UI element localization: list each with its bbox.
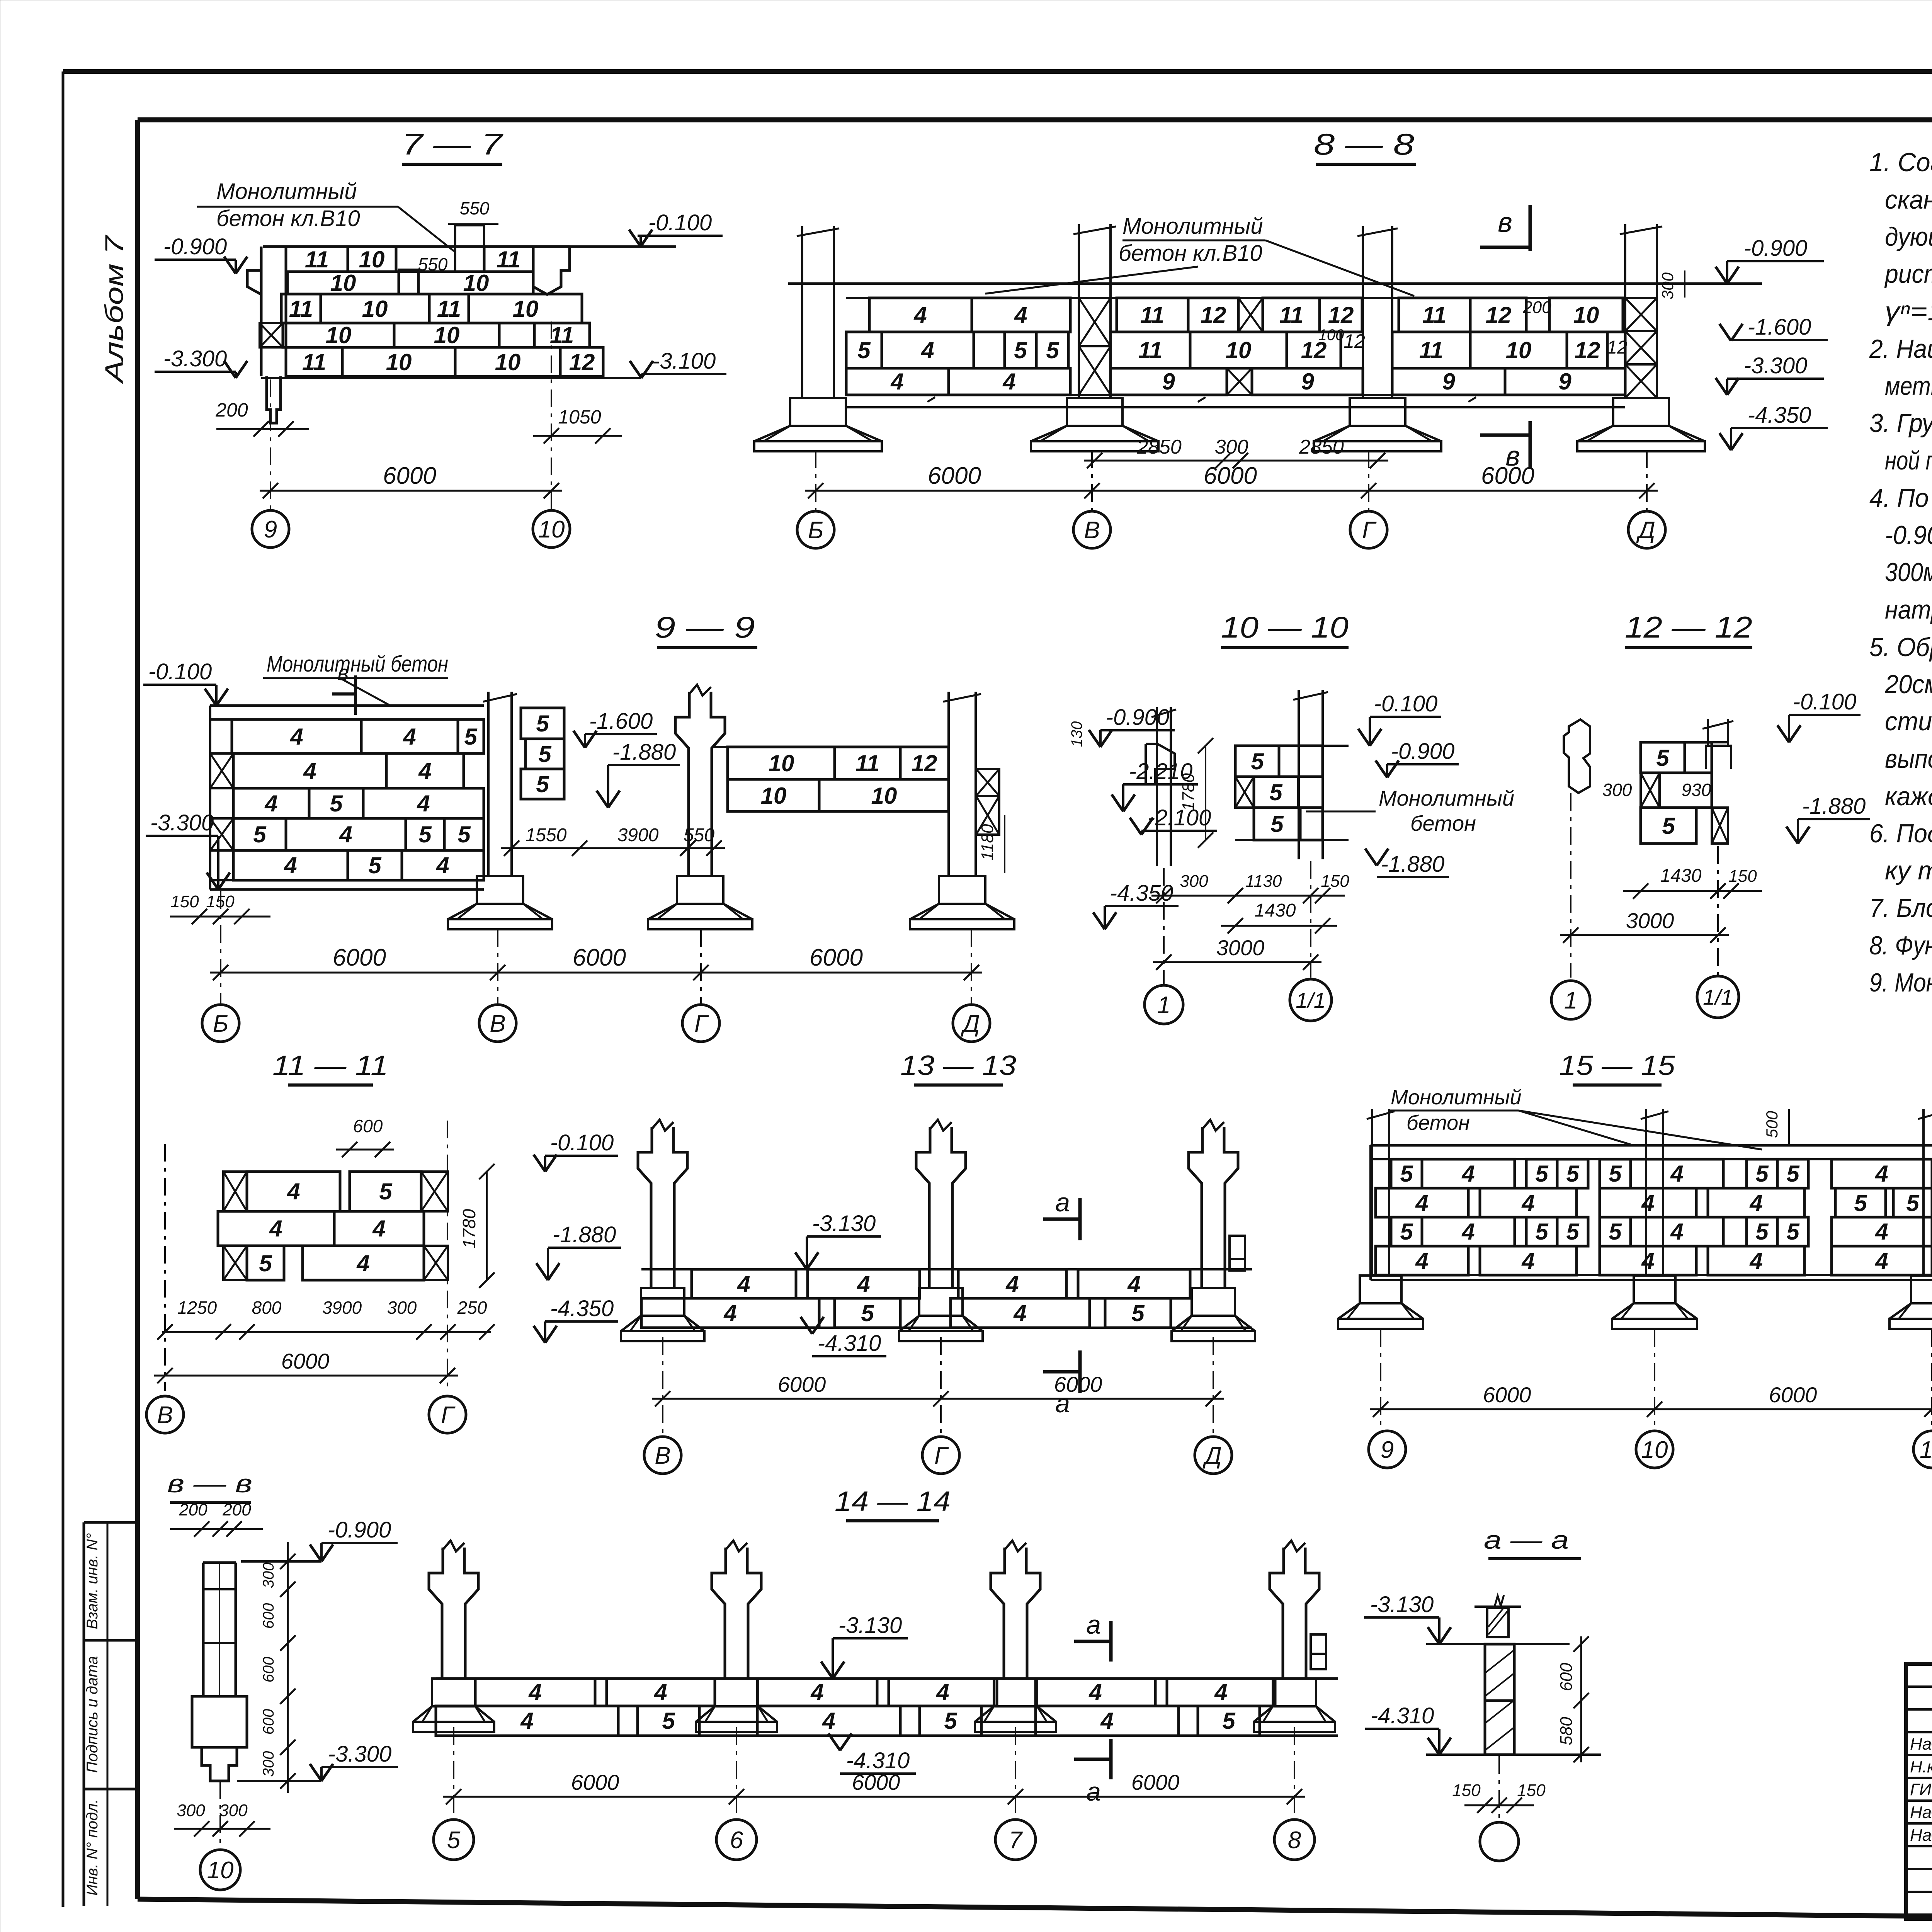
section 12-12 corbel shape [1564, 719, 1590, 793]
stamp signature names [1910, 1735, 1932, 1845]
svg-text:6: 6 [730, 1827, 743, 1854]
svg-text:6000: 6000 [1054, 1372, 1102, 1396]
section в-в axis line [219, 1781, 221, 1849]
section 10-10 axis lines [1164, 861, 1311, 985]
section 15-15 label Монолитный бетон [1389, 1086, 1762, 1150]
svg-text:10 — 10: 10 — 10 [1221, 610, 1349, 644]
svg-text:14 — 14: 14 — 14 [835, 1486, 951, 1517]
svg-text:4: 4 [1127, 1271, 1140, 1297]
svg-text:5: 5 [1270, 811, 1284, 837]
svg-text:а: а [1086, 1610, 1101, 1639]
svg-text:-3.130: -3.130 [1370, 1592, 1434, 1617]
section 11-11 blocks [218, 1172, 448, 1280]
svg-text:5: 5 [1014, 337, 1027, 363]
svg-text:-4.350: -4.350 [1748, 403, 1811, 428]
section 9-9 blocks 5 right of В [521, 708, 564, 799]
section а-а axis circle [1480, 1822, 1519, 1861]
section 9-9 label Монолитный бетон [263, 651, 448, 706]
svg-text:В: В [1084, 517, 1100, 544]
section 14-14 title [835, 1486, 951, 1521]
section 10-10 axis circle 1/1 [1290, 979, 1332, 1021]
svg-text:300: 300 [177, 1801, 205, 1820]
section 8-8 axis lines [816, 450, 1647, 510]
svg-text:7: 7 [1009, 1827, 1023, 1854]
svg-text:Б: Б [213, 1010, 228, 1037]
section 14-14 dim 6000 row [443, 1770, 1305, 1804]
section 9-9 column В [448, 692, 552, 929]
svg-text:2. Наивысший уровень грунто: 2. Наивысший уровень грунтовых вод долже… [1869, 334, 1932, 364]
section а-а dim 150 150 [1452, 1781, 1546, 1813]
section 11-11 axis circle В [146, 1396, 184, 1433]
section 13-13 axis lines [663, 1337, 1213, 1435]
svg-text:5: 5 [1755, 1219, 1769, 1245]
svg-text:4: 4 [822, 1708, 835, 1734]
section 7-7 dim 200 [215, 399, 309, 437]
svg-text:6000: 6000 [928, 463, 981, 489]
svg-text:6000: 6000 [573, 944, 626, 971]
svg-text:4: 4 [1415, 1190, 1428, 1216]
svg-text:9. Монолитные участки выпол: 9. Монолитные участки выполнять из бетон… [1869, 968, 1932, 997]
section 11-11 title [272, 1050, 388, 1085]
section 7-7 right cap [533, 247, 570, 294]
sidebar label Инв. № подл. [84, 1799, 101, 1896]
svg-text:ку толщиной 10см.: ку толщиной 10см. [1885, 856, 1932, 885]
svg-text:10: 10 [386, 349, 412, 375]
svg-text:-0.900: -0.900 [1744, 236, 1807, 261]
section 13-13 axis circle Г [922, 1437, 959, 1474]
svg-text:200: 200 [1522, 298, 1551, 317]
section 10-10 level -0.100 [1358, 691, 1441, 746]
svg-text:-0.900: -0.900 [1106, 705, 1169, 730]
svg-text:-3.130: -3.130 [838, 1613, 902, 1638]
svg-text:5: 5 [536, 711, 549, 736]
stamp main box outline [1906, 1664, 1932, 1932]
svg-text:-1.600: -1.600 [589, 709, 653, 734]
svg-text:300: 300 [260, 1751, 277, 1777]
section 9-9 level -1.880 [597, 740, 680, 808]
svg-text:11: 11 [289, 296, 313, 322]
section 9-9 dim 1550-3900-550 [501, 825, 725, 856]
section 15-15 axis circle 10 [1636, 1431, 1673, 1468]
section 9-9 axis circle Д [953, 1005, 990, 1042]
svg-text:Монолитный: Монолитный [1391, 1086, 1522, 1109]
svg-text:6. Под подошвой фундамент: 6. Под подошвой фундаментов выполнить пе… [1869, 819, 1932, 848]
svg-text:-0.900: -0.900 [1391, 739, 1454, 764]
svg-text:5: 5 [1566, 1219, 1580, 1245]
svg-text:5: 5 [1662, 813, 1675, 839]
svg-text:10: 10 [1226, 337, 1252, 363]
section 12-12 level -0.100 [1777, 689, 1861, 742]
section 13-13 column Д [1172, 1120, 1255, 1341]
svg-text:15 — 15: 15 — 15 [1559, 1050, 1675, 1081]
section в-в level -0.900 [241, 1517, 398, 1561]
svg-text:4: 4 [284, 852, 297, 878]
svg-text:-3.300: -3.300 [1744, 353, 1807, 378]
section 14-14 axis circle 5 [434, 1820, 474, 1860]
svg-text:6000: 6000 [281, 1349, 330, 1373]
section 11-11 axis lines [165, 1121, 447, 1391]
svg-text:-1.880: -1.880 [553, 1222, 616, 1247]
section 9-9 section mark в [332, 660, 355, 715]
svg-text:9: 9 [1558, 369, 1571, 395]
svg-text:300: 300 [1602, 780, 1632, 800]
svg-text:4: 4 [1875, 1248, 1888, 1274]
svg-text:150: 150 [1728, 867, 1757, 886]
svg-text:натрия, битумные мастики).: натрия, битумные мастики). [1885, 595, 1932, 624]
section 9-9 left wall [210, 706, 484, 889]
section 12-12 axis lines [1571, 793, 1718, 978]
svg-text:5: 5 [1656, 745, 1670, 771]
svg-text:4: 4 [921, 337, 934, 363]
section 8-8 level -0.900 [1716, 236, 1824, 284]
svg-text:бетон: бетон [1410, 811, 1476, 835]
svg-text:метки планировки земли.: метки планировки земли. [1885, 371, 1932, 401]
svg-text:Монолитный: Монолитный [1379, 786, 1514, 810]
svg-text:10: 10 [359, 247, 385, 272]
section 8-8 column В hatched [1031, 224, 1158, 451]
svg-text:1550: 1550 [526, 825, 567, 845]
svg-text:6000: 6000 [1483, 1383, 1531, 1407]
svg-text:12: 12 [912, 750, 937, 776]
svg-text:11: 11 [437, 296, 461, 322]
svg-text:5: 5 [368, 852, 382, 878]
svg-text:4: 4 [1875, 1219, 1888, 1245]
svg-text:550: 550 [460, 198, 490, 218]
svg-text:4: 4 [528, 1679, 541, 1705]
svg-text:бетон кл.В10: бетон кл.В10 [1119, 241, 1262, 266]
svg-text:-1.600: -1.600 [1748, 315, 1811, 340]
section 9-9 axis circle Б [202, 1005, 239, 1042]
section 8-8 axis circle В [1073, 511, 1111, 548]
section а-а level -3.130 [1364, 1592, 1451, 1644]
svg-text:1/1: 1/1 [1296, 988, 1326, 1012]
svg-text:4: 4 [372, 1216, 385, 1242]
svg-text:10: 10 [538, 516, 565, 543]
svg-text:-1.880: -1.880 [612, 740, 676, 765]
svg-text:-3.100: -3.100 [652, 349, 716, 374]
section 9-9 level -3.300 [146, 810, 230, 889]
section 7-7 title [402, 127, 503, 164]
svg-text:1. Согласно технического от: 1. Согласно технического отчета по инжен… [1869, 148, 1932, 177]
svg-text:4: 4 [1013, 1300, 1026, 1326]
notes text block [1869, 148, 1932, 997]
section 7-7 x-block [260, 323, 283, 347]
svg-text:Монолитный: Монолитный [216, 179, 357, 204]
svg-text:1430: 1430 [1255, 900, 1296, 921]
section а-а datum top line [1426, 1643, 1570, 1645]
svg-text:11: 11 [1920, 1437, 1932, 1463]
svg-text:5: 5 [538, 741, 552, 767]
section 13-13 section mark a bottom [1043, 1350, 1080, 1418]
section 10-10 title [1221, 610, 1349, 648]
svg-text:4: 4 [418, 758, 431, 784]
svg-text:580: 580 [1557, 1717, 1576, 1745]
svg-text:4: 4 [287, 1179, 300, 1204]
section а-а datum bottom line [1426, 1753, 1601, 1756]
section 10-10 level -1.880 [1365, 849, 1449, 877]
section 14-14 level -3.130 [821, 1613, 908, 1679]
section 11-11 dims row [157, 1298, 495, 1340]
section 8-8 dim 2850-300-2850 [1084, 436, 1388, 468]
section 7-7 level -3.100 [603, 349, 726, 378]
svg-text:5: 5 [1786, 1219, 1800, 1245]
section 8-8 level -4.350 [1719, 403, 1828, 450]
svg-text:5: 5 [662, 1708, 675, 1734]
sidebar label Подпись и дата [84, 1656, 101, 1773]
svg-text:4: 4 [1461, 1161, 1475, 1187]
svg-text:5: 5 [1400, 1161, 1413, 1187]
section 12-12 axis circle 1 [1551, 981, 1590, 1019]
section в-в dim 300 300 [174, 1801, 270, 1837]
svg-text:5: 5 [1046, 337, 1060, 363]
svg-text:11: 11 [1419, 337, 1443, 363]
svg-text:2850: 2850 [1299, 436, 1344, 458]
section 11-11 dim 6000 [154, 1349, 458, 1383]
section 15-15 axis circle 11 [1913, 1431, 1932, 1468]
svg-text:Подпись и дата: Подпись и дата [84, 1656, 101, 1773]
section 8-8 foundation beam strip [846, 395, 1625, 407]
section 8-8 wall span В-Г [1111, 298, 1365, 395]
svg-text:4: 4 [1670, 1161, 1683, 1187]
svg-text:Монолитный: Монолитный [1122, 214, 1263, 239]
svg-text:300: 300 [387, 1298, 417, 1318]
section 13-13 column В [621, 1120, 704, 1341]
svg-text:1430: 1430 [1660, 866, 1702, 886]
svg-text:-1.880: -1.880 [1381, 852, 1444, 877]
svg-text:600: 600 [260, 1709, 277, 1735]
section 8-8 top slab [788, 284, 1762, 298]
svg-text:в: в [337, 660, 349, 685]
svg-text:Г: Г [441, 1402, 456, 1429]
svg-text:-3.300: -3.300 [150, 810, 214, 835]
svg-text:1: 1 [1564, 987, 1577, 1014]
svg-text:Альбом 7: Альбом 7 [100, 235, 128, 384]
section 8-8 wall span Б-В [846, 298, 1070, 395]
section а-а level -4.310 [1365, 1703, 1451, 1755]
svg-text:11: 11 [305, 247, 329, 272]
section 13-13 axis circle Д [1195, 1437, 1232, 1474]
svg-text:250: 250 [457, 1298, 487, 1318]
svg-text:10: 10 [1573, 302, 1599, 328]
svg-text:6000: 6000 [383, 463, 436, 489]
section 14-14 column 6 [696, 1541, 777, 1732]
svg-text:8: 8 [1288, 1827, 1301, 1854]
section 10-10 dim 3000 [1153, 935, 1321, 970]
section 13-13 column Г [899, 1120, 983, 1341]
section 10-10 column axis 1/1 [1293, 690, 1328, 859]
svg-text:5: 5 [330, 791, 343, 816]
svg-text:200: 200 [179, 1500, 207, 1519]
section 8-8 wall span Г-Д [1392, 298, 1628, 395]
svg-text:γⁿ=1.8 т/м³.: γⁿ=1.8 т/м³. [1885, 297, 1932, 326]
section 14-14 level -4.310 [828, 1733, 916, 1774]
svg-text:3. Грунтовые воды не агрес: 3. Грунтовые воды не агрессивны по отнош… [1869, 408, 1932, 438]
section 9-9 axis circle В [479, 1005, 516, 1042]
section 9-9 level -4.350 [1093, 881, 1179, 929]
svg-text:4. По верху фундаментных: 4. По верху фундаментных балок и блоков … [1869, 483, 1932, 513]
section 8-8 axis circle Д [1628, 511, 1665, 548]
svg-text:11 — 11: 11 — 11 [272, 1050, 388, 1081]
svg-text:11: 11 [302, 349, 326, 375]
svg-text:5: 5 [536, 771, 549, 797]
svg-text:а: а [1055, 1188, 1070, 1217]
section в-в dim 200 200 [170, 1500, 263, 1537]
section 8-8 level -3.300 [1716, 353, 1824, 395]
section 9-9 level -0.900 right [1068, 705, 1175, 747]
svg-text:-3.130: -3.130 [812, 1211, 876, 1236]
section а-а title [1484, 1526, 1581, 1559]
svg-text:4: 4 [403, 724, 416, 750]
svg-text:1250: 1250 [177, 1298, 217, 1318]
svg-text:930: 930 [1682, 780, 1711, 800]
svg-text:сканиям основанием здания: сканиям основанием здания являются пески… [1885, 185, 1932, 214]
section 10-10 axis circle 1 [1145, 985, 1183, 1024]
svg-text:10: 10 [362, 296, 388, 322]
svg-text:130: 130 [1068, 721, 1085, 747]
svg-text:550: 550 [684, 825, 714, 845]
section 9-9 level -1.600 [573, 709, 657, 748]
svg-text:-0.900: -0.900 [163, 234, 227, 259]
section 7-7 left column [247, 247, 286, 423]
section 14-14 beam blocks [436, 1679, 1338, 1736]
section 7-7 axis lines [270, 321, 551, 510]
svg-text:4: 4 [913, 302, 927, 328]
section 10-10 label Монолитный бетон [1306, 786, 1514, 835]
svg-text:бетон: бетон [1406, 1111, 1470, 1134]
sheet outer border left [62, 71, 65, 1907]
svg-text:4: 4 [1749, 1190, 1762, 1216]
svg-text:500: 500 [1763, 1111, 1781, 1138]
svg-text:5: 5 [1400, 1219, 1413, 1245]
svg-text:-0.100: -0.100 [1374, 691, 1437, 716]
section 15-15 title [1559, 1050, 1675, 1085]
svg-text:200: 200 [215, 399, 248, 421]
section 9-9 axis lines [221, 891, 971, 1005]
svg-text:а: а [1086, 1777, 1101, 1806]
section 14-14 column 8 [1254, 1541, 1335, 1732]
svg-text:12 — 12: 12 — 12 [1625, 610, 1752, 644]
section 7-7 wall blocks [281, 247, 603, 376]
svg-text:-3.300: -3.300 [328, 1742, 391, 1767]
section 9-9 dim 150-150 [170, 892, 270, 924]
section 15-15 dim row [1370, 1383, 1932, 1417]
svg-text:6000: 6000 [571, 1770, 619, 1794]
svg-text:5: 5 [1854, 1190, 1867, 1216]
svg-text:ГИПстр.: ГИПстр. [1910, 1780, 1932, 1799]
svg-text:-4.350: -4.350 [550, 1296, 614, 1321]
svg-text:5: 5 [447, 1827, 461, 1854]
svg-text:10: 10 [513, 296, 539, 322]
section 8-8 dim 6000 row [805, 463, 1658, 498]
section 7-7 level -3.300 [155, 346, 247, 378]
section 10-10 dim 300-1130-150 [1151, 872, 1349, 903]
svg-text:3900: 3900 [322, 1298, 362, 1318]
svg-text:5: 5 [418, 821, 432, 847]
section 10-10 column axis 1 [1146, 707, 1176, 866]
svg-text:4: 4 [1214, 1679, 1227, 1705]
section в-в column stack [192, 1563, 247, 1781]
section в-в title [167, 1469, 252, 1502]
svg-text:5: 5 [253, 821, 267, 847]
svg-text:10: 10 [769, 750, 794, 776]
svg-text:3000: 3000 [1626, 908, 1674, 933]
section 8-8 dim 300 [1658, 270, 1685, 299]
svg-text:Нач.гр.: Нач.гр. [1910, 1803, 1932, 1822]
svg-text:4: 4 [356, 1250, 369, 1276]
svg-text:1050: 1050 [558, 406, 601, 428]
section а-а vertical dims [1557, 1636, 1589, 1762]
section в-в level -3.300 [237, 1742, 398, 1781]
section 8-8 level -1.600 [1719, 315, 1828, 341]
svg-text:Нач.гр.: Нач.гр. [1910, 1826, 1932, 1845]
svg-text:4: 4 [1461, 1219, 1475, 1245]
svg-text:5: 5 [1251, 748, 1264, 774]
svg-text:в — в: в — в [167, 1469, 252, 1498]
svg-text:4: 4 [1002, 369, 1015, 395]
svg-text:10: 10 [326, 322, 352, 348]
section 7-7 axis circle 9 [252, 510, 289, 548]
svg-text:300: 300 [1215, 436, 1248, 458]
svg-text:600: 600 [260, 1603, 277, 1629]
section 9-9 dim 6000 row [210, 944, 982, 980]
svg-text:5: 5 [1906, 1190, 1920, 1216]
svg-text:10: 10 [1641, 1437, 1668, 1463]
svg-text:В: В [655, 1442, 670, 1469]
section 7-7 label Монолитный бетон кл.В10 [197, 179, 454, 251]
svg-text:4: 4 [1005, 1271, 1019, 1297]
section 7-7 level -0.900 [155, 234, 247, 274]
svg-text:9 — 9: 9 — 9 [655, 610, 755, 644]
svg-text:10: 10 [463, 270, 489, 296]
section в-в axis circle 10 [200, 1850, 240, 1890]
section 8-8 title [1314, 127, 1416, 164]
svg-text:Д: Д [961, 1010, 980, 1037]
svg-text:11: 11 [1422, 302, 1446, 328]
svg-text:10: 10 [434, 322, 460, 348]
svg-text:Взам. инв. N°: Взам. инв. N° [84, 1533, 101, 1629]
section а-а axis line [1498, 1756, 1500, 1822]
svg-text:12: 12 [569, 349, 595, 375]
svg-text:-4.310: -4.310 [1371, 1703, 1434, 1728]
svg-text:1: 1 [1157, 992, 1170, 1019]
svg-text:150: 150 [170, 892, 199, 911]
section 11-11 dim 1780 [459, 1164, 495, 1288]
svg-text:12: 12 [1328, 302, 1354, 328]
svg-text:4: 4 [810, 1679, 823, 1705]
section 7-7 top line [263, 247, 570, 272]
svg-text:20см с тщательным уплотнен: 20см с тщательным уплотнением каждого сл… [1884, 670, 1932, 699]
svg-text:5: 5 [1609, 1219, 1622, 1245]
section 11-11 axis circle Г [429, 1396, 466, 1433]
section 7-7 bottom line [261, 377, 634, 379]
section 12-12 dim 1430-150 [1623, 866, 1762, 899]
svg-text:4: 4 [290, 724, 303, 750]
section 15-15 column 11 [1889, 1109, 1932, 1329]
sidebar label Взам. инв. № [84, 1533, 101, 1629]
svg-text:5: 5 [464, 724, 478, 750]
section 13-13 level -3.130 [795, 1211, 881, 1269]
svg-text:5. Обратную засыпку пазух: 5. Обратную засыпку пазух котлованов про… [1869, 633, 1932, 662]
svg-text:12: 12 [1575, 337, 1600, 363]
svg-text:5: 5 [944, 1708, 957, 1734]
svg-text:9: 9 [1162, 369, 1175, 395]
svg-text:-0.900 выполнить цементно-пе: -0.900 выполнить цементно-песчаную гидро… [1885, 520, 1932, 550]
section 8-8 axis circle Г [1350, 511, 1387, 548]
section 14-14 axis lines [454, 1727, 1294, 1818]
section 9-9 right beam [714, 747, 949, 811]
svg-text:6000: 6000 [810, 944, 863, 971]
section 11-11 level -0.100 [534, 1130, 618, 1172]
